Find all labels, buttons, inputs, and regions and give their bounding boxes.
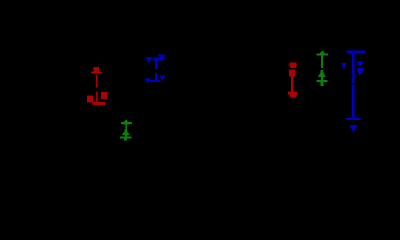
shaft of Ua (upper) <box>352 53 355 83</box>
arrowhead of Ua (down) <box>350 125 358 133</box>
base bar of I3 <box>316 80 327 82</box>
bottom serif of italic I <box>150 80 160 82</box>
tail of I3 <box>321 82 324 86</box>
foot bar of U2 <box>288 92 298 95</box>
arrowhead top-right (down) <box>158 55 166 62</box>
base bar of I2 <box>120 136 132 138</box>
shaft of U1 (upper) <box>96 75 98 88</box>
shaft of U1 (lower, below crossing wire) <box>96 91 98 102</box>
stem of italic I (lower, below crossing wire) <box>155 73 157 80</box>
arrowhead of U1 <box>94 67 99 72</box>
second arrowhead of I2 <box>122 130 130 135</box>
lower shaft of I3 <box>321 77 323 80</box>
shaft of I2 <box>125 124 127 129</box>
shaft of Ua (lower, below crossing wire) <box>352 85 355 118</box>
label glyph subscript 1 (right of shaft) <box>101 92 107 99</box>
voltage arrow U1 (red, left branch, pointing up) <box>87 67 107 105</box>
foot body of U2 <box>290 94 296 98</box>
tail of I2 <box>124 138 127 140</box>
lower shaft of I2 <box>125 135 127 137</box>
current arrow I2 (green, left branch, pointing up) <box>120 119 132 140</box>
arrowhead of I2 <box>122 119 130 124</box>
bottom terminal bar of Ua <box>346 118 361 120</box>
stem of italic I (upper) <box>155 60 157 69</box>
arrowhead of U2 <box>289 62 296 64</box>
top serif of italic I <box>152 58 163 61</box>
arrowhead of I3 <box>318 50 326 55</box>
label glyph left (down arrowhead) <box>341 63 347 70</box>
arrowhead bottom-right (down) <box>160 76 166 82</box>
voltage arrow U2 (red, right branch, pointing up) <box>288 62 298 97</box>
label glyph U (left of shaft) <box>87 96 93 103</box>
current label I with arrowheads (blue, middle top) <box>145 55 166 84</box>
second arrowhead of I3 <box>318 70 326 77</box>
label glyph of U2 on shaft <box>289 70 295 77</box>
label glyph right upper (down arrowhead) <box>356 61 364 67</box>
current arrow I3 (green, right branch, pointing up) <box>316 50 328 86</box>
arrowhead bottom-left (down) <box>145 79 151 84</box>
voltage arrow Ua (blue, output, pointing down) <box>341 50 365 132</box>
top terminal bar of Ua <box>347 50 366 53</box>
shaft of I3 <box>321 55 323 68</box>
shaft of U2 <box>291 77 293 92</box>
label glyph right lower <box>357 68 363 71</box>
base bar of U1 <box>93 102 105 105</box>
arrowhead top-left (down) <box>146 57 153 63</box>
